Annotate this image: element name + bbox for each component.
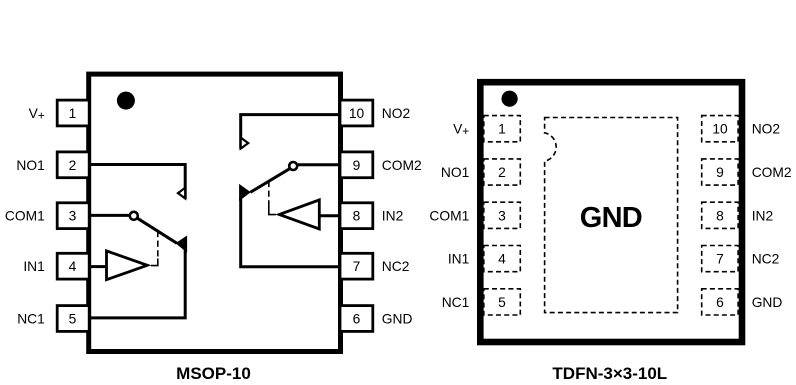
TDFN pin 3 pad — [484, 202, 521, 228]
svg-text:MSOP-10: MSOP-10 — [176, 364, 251, 383]
svg-text:NC2: NC2 — [382, 259, 410, 274]
svg-text:8: 8 — [716, 208, 724, 223]
svg-text:IN1: IN1 — [448, 252, 469, 267]
TDFN pin 8 pad — [702, 202, 738, 228]
pin 10 box — [340, 100, 373, 126]
TDFN pin 2 pad — [484, 159, 521, 185]
svg-text:2: 2 — [69, 158, 77, 173]
S1 pivot circle — [130, 212, 138, 220]
svg-text:COM1: COM1 — [429, 208, 469, 223]
svg-text:5: 5 — [69, 312, 77, 327]
TDFN pin 1 pad — [484, 116, 521, 142]
svg-text:NC1: NC1 — [442, 295, 470, 310]
pin 6 box — [340, 306, 373, 332]
svg-text:4: 4 — [69, 259, 77, 274]
svg-text:NO1: NO1 — [16, 158, 44, 173]
S2 control dashed line — [268, 181, 270, 207]
svg-text:IN2: IN2 — [752, 208, 773, 223]
S2 pole (wiper) — [250, 169, 289, 193]
svg-text:10: 10 — [712, 122, 728, 137]
TDFN pin 10 pad — [702, 116, 738, 142]
svg-text:1: 1 — [69, 106, 77, 121]
svg-text:GND: GND — [382, 312, 413, 327]
svg-text:6: 6 — [716, 295, 724, 310]
TDFN pin 4 pad — [484, 246, 521, 272]
wire from pin 8 (IN2) — [319, 214, 338, 217]
TDFN pin 9 pad — [702, 159, 738, 185]
svg-text:V+: V+ — [29, 106, 45, 123]
svg-text:NC1: NC1 — [17, 312, 45, 327]
svg-text:COM1: COM1 — [5, 209, 45, 224]
pin 9 box — [340, 152, 373, 178]
S1 control line solid elbow — [151, 259, 158, 266]
svg-text:NO2: NO2 — [752, 122, 780, 137]
svg-text:5: 5 — [498, 295, 506, 310]
svg-text:NO2: NO2 — [382, 106, 410, 121]
pin-1 indicator dot — [117, 92, 135, 110]
svg-text:7: 7 — [716, 252, 724, 267]
S1 pole (wiper) — [137, 218, 177, 243]
wire from pin 9 (COM2) — [298, 163, 339, 166]
svg-text:IN2: IN2 — [382, 209, 403, 224]
S1 NO contact (open arrowhead) — [178, 188, 185, 199]
pin 8 box — [340, 203, 373, 229]
wire from pin 7 (NC2) — [241, 198, 338, 267]
driver buffer A1 (IN1) — [107, 251, 148, 280]
pin 1 box — [57, 100, 89, 126]
S2 pivot circle — [289, 162, 297, 170]
svg-text:7: 7 — [353, 259, 361, 274]
svg-text:GND: GND — [580, 202, 642, 234]
svg-text:6: 6 — [353, 312, 361, 327]
wire from pin 4 (IN1) — [91, 265, 107, 268]
switch S1: wire from pin 2 (NO1) — [91, 165, 185, 199]
S1 NC contact (filled arrowhead) — [176, 236, 186, 251]
pin 3 box — [57, 203, 89, 229]
svg-text:COM2: COM2 — [382, 158, 422, 173]
svg-text:NC2: NC2 — [752, 252, 780, 267]
S1 control dashed line — [157, 231, 159, 259]
IC body U2 (TDFN-3x3-10L) — [480, 82, 742, 342]
S2 NO contact (open arrowhead) — [241, 138, 249, 149]
pin 4 box — [57, 253, 89, 279]
svg-text:4: 4 — [498, 252, 506, 267]
svg-text:8: 8 — [353, 209, 361, 224]
svg-text:10: 10 — [349, 106, 365, 121]
svg-text:V+: V+ — [453, 122, 469, 139]
TDFN pin 7 pad — [702, 246, 738, 272]
S2 NC contact (filled arrowhead) — [240, 185, 250, 200]
driver buffer A2 (IN2) — [279, 200, 319, 229]
wire from pin 5 (NC1) — [91, 245, 185, 318]
svg-text:GND: GND — [752, 295, 783, 310]
svg-text:NO1: NO1 — [441, 165, 469, 180]
svg-text:1: 1 — [498, 122, 506, 137]
svg-text:2: 2 — [498, 165, 506, 180]
svg-text:9: 9 — [353, 158, 361, 173]
wire from pin 3 (COM1) — [91, 214, 130, 217]
S2 control line solid elbow — [269, 207, 276, 215]
IC body U1 (MSOP-10) — [89, 74, 341, 351]
switch S2: wire from pin 10 (NO2) — [241, 115, 338, 149]
pin 7 box — [340, 253, 373, 279]
pin-1 indicator dot (TDFN) — [502, 91, 518, 107]
svg-text:3: 3 — [69, 209, 77, 224]
svg-text:TDFN-3×3-10L: TDFN-3×3-10L — [552, 364, 667, 383]
svg-text:IN1: IN1 — [23, 259, 44, 274]
svg-text:3: 3 — [498, 208, 506, 223]
TDFN pin 6 pad — [702, 289, 738, 315]
exposed GND pad (dashed, with pin-1 notch) — [545, 118, 678, 313]
pin 5 box — [57, 306, 89, 332]
TDFN pin 5 pad — [484, 289, 521, 315]
svg-text:COM2: COM2 — [752, 165, 792, 180]
svg-text:9: 9 — [716, 165, 724, 180]
pin 2 box — [57, 152, 89, 178]
